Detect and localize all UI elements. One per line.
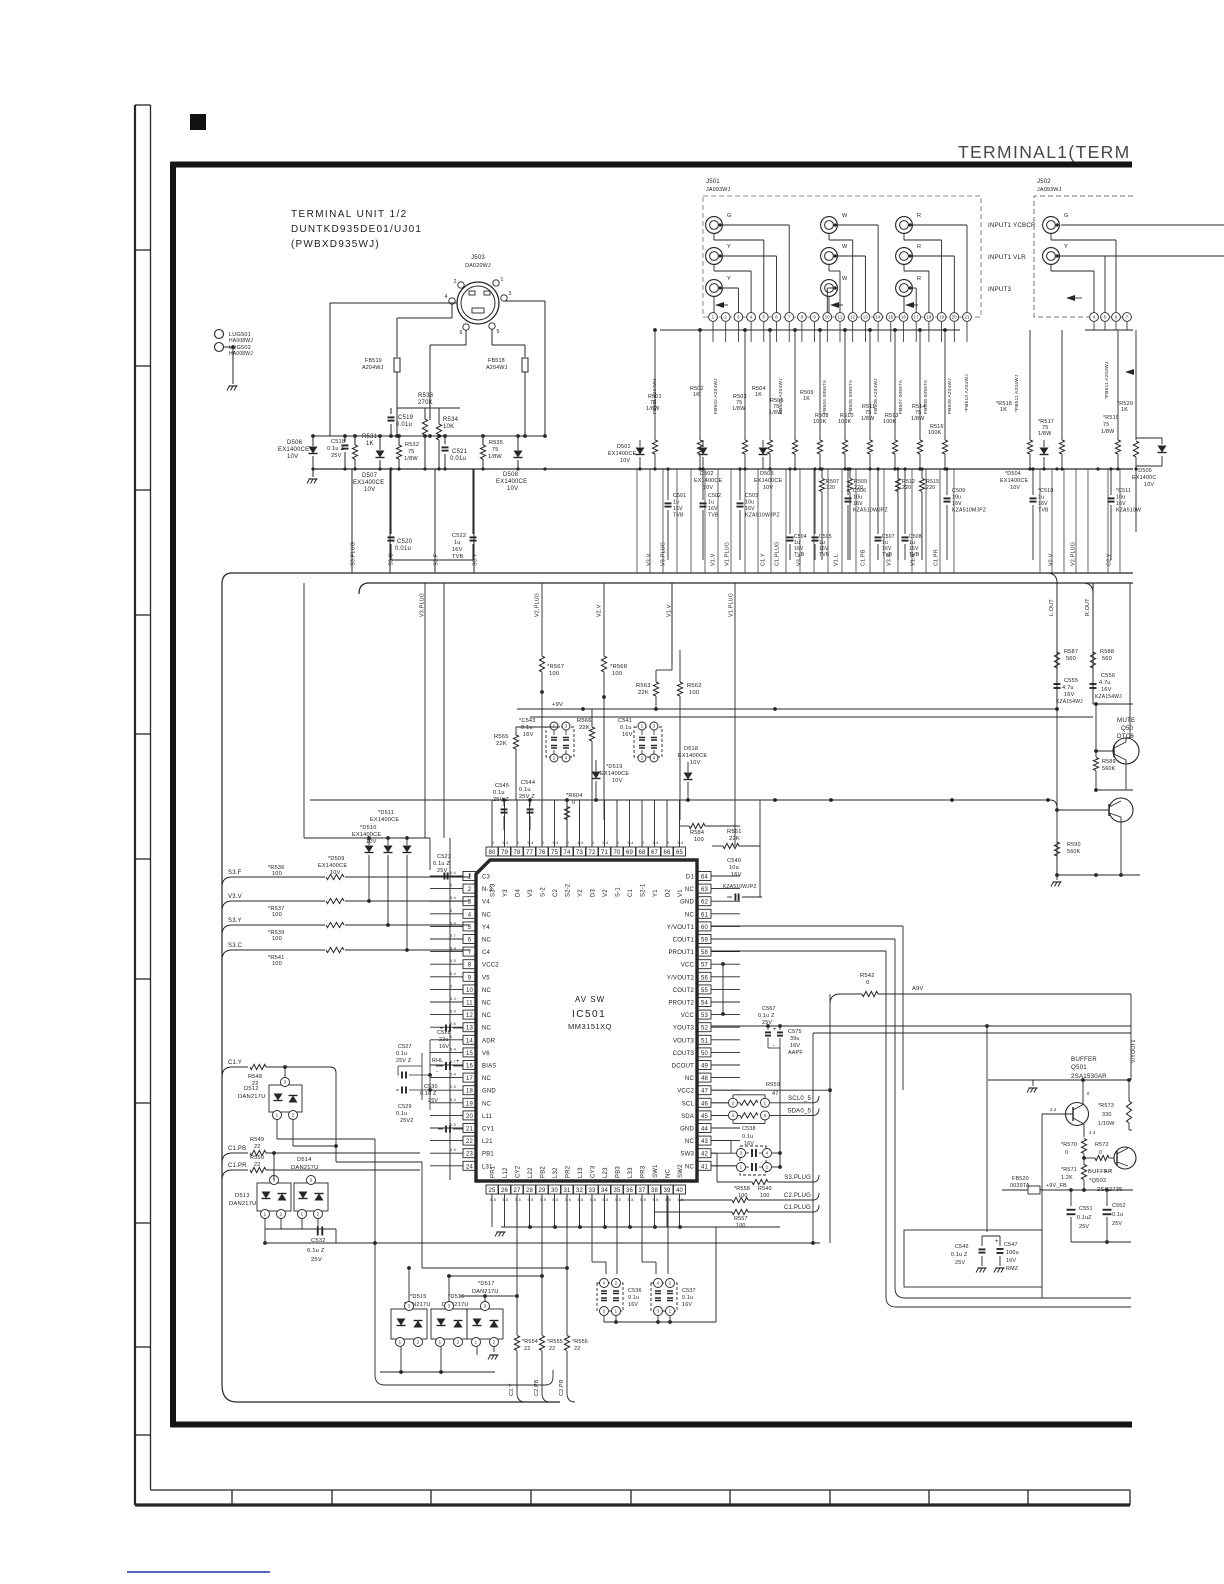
- svg-text:KZA510WJPZ: KZA510WJPZ: [723, 884, 757, 890]
- svg-text:1: 1: [439, 1340, 442, 1345]
- svg-text:*C511: *C511: [1116, 488, 1131, 494]
- svg-text:R: R: [917, 276, 921, 282]
- svg-text:560K: 560K: [1102, 766, 1116, 772]
- svg-text:10V: 10V: [507, 486, 518, 492]
- svg-text:5.4: 5.4: [450, 997, 456, 1001]
- svg-text:5.4: 5.4: [603, 841, 609, 845]
- svg-text:3: 3: [764, 1113, 767, 1118]
- svg-text:1u: 1u: [673, 500, 679, 506]
- svg-text:FB518: FB518: [488, 358, 505, 364]
- svg-text:PB1: PB1: [482, 1152, 494, 1158]
- svg-text:0039TA: 0039TA: [1010, 1183, 1030, 1189]
- svg-text:19: 19: [466, 1101, 474, 1107]
- svg-text:0.1uZ: 0.1uZ: [1077, 1215, 1092, 1221]
- svg-text:A204WJ: A204WJ: [362, 365, 384, 371]
- svg-text:*R558: *R558: [734, 1186, 750, 1192]
- svg-text:80: 80: [488, 850, 496, 856]
- svg-text:10: 10: [466, 988, 474, 994]
- svg-text:VCC: VCC: [681, 963, 695, 969]
- svg-text:0.01u: 0.01u: [396, 422, 412, 428]
- svg-text:3: 3: [408, 1304, 411, 1309]
- svg-text:16V: 16V: [439, 1044, 449, 1050]
- svg-text:C520: C520: [397, 539, 413, 545]
- svg-text:63: 63: [701, 887, 709, 893]
- svg-text:19: 19: [939, 315, 945, 320]
- svg-text:10V: 10V: [1144, 482, 1154, 488]
- svg-text:560: 560: [1102, 656, 1112, 662]
- svg-text:16V: 16V: [952, 501, 962, 507]
- svg-text:0: 0: [592, 841, 594, 845]
- svg-text:V5: V5: [482, 975, 490, 981]
- svg-text:C502: C502: [708, 493, 721, 499]
- svg-text:R588: R588: [1100, 649, 1114, 655]
- svg-text:D518: D518: [684, 746, 698, 752]
- svg-text:Y: Y: [727, 244, 731, 250]
- svg-text:5.4: 5.4: [450, 921, 456, 925]
- svg-text:*D515: *D515: [410, 1294, 427, 1300]
- svg-text:21: 21: [964, 315, 970, 320]
- svg-text:0.1u: 0.1u: [1112, 1212, 1123, 1218]
- svg-text:5.7: 5.7: [450, 934, 456, 938]
- svg-text:+9V_FB: +9V_FB: [1046, 1183, 1067, 1189]
- svg-text:28: 28: [526, 1188, 534, 1194]
- svg-text:L13: L13: [578, 1167, 584, 1178]
- svg-text:2: 2: [493, 1340, 496, 1345]
- svg-text:DAN217U: DAN217U: [229, 1201, 257, 1207]
- svg-text:J503: J503: [471, 255, 485, 261]
- svg-text:S3.C: S3.C: [389, 553, 395, 566]
- svg-text:R562: R562: [687, 683, 702, 689]
- svg-text:25V: 25V: [437, 868, 448, 874]
- svg-text:FB504 0055TA: FB504 0055TA: [822, 379, 828, 414]
- svg-text:C1.Y: C1.Y: [761, 553, 767, 566]
- svg-text:C2.PR: C2.PR: [559, 1379, 565, 1396]
- svg-text:11: 11: [466, 1001, 473, 1007]
- svg-text:48: 48: [701, 1076, 709, 1082]
- svg-text:1K: 1K: [366, 441, 374, 447]
- svg-text:0: 0: [517, 841, 519, 845]
- svg-text:C519: C519: [398, 415, 414, 421]
- svg-text:2: 2: [732, 1100, 735, 1105]
- svg-text:V3.V: V3.V: [228, 894, 242, 900]
- svg-text:SW2: SW2: [678, 1164, 684, 1178]
- svg-text:R550: R550: [250, 1155, 264, 1161]
- svg-text:DAN217U: DAN217U: [291, 1165, 319, 1171]
- svg-text:0.01u: 0.01u: [450, 456, 466, 462]
- svg-text:4.7u: 4.7u: [1062, 685, 1074, 691]
- svg-text:EX1400CE: EX1400CE: [496, 479, 527, 485]
- svg-text:D502: D502: [700, 471, 714, 477]
- svg-text:1: 1: [301, 1212, 304, 1217]
- svg-text:0.1u: 0.1u: [493, 790, 505, 796]
- svg-text:ADR: ADR: [482, 1038, 496, 1044]
- svg-text:PR3: PR3: [641, 1165, 647, 1178]
- svg-text:5.5: 5.5: [615, 1198, 621, 1202]
- svg-text:34: 34: [601, 1188, 609, 1194]
- svg-text:13: 13: [466, 1026, 474, 1032]
- svg-text:C1: C1: [628, 888, 634, 897]
- svg-text:22K: 22K: [496, 741, 507, 747]
- svg-text:C1.PB: C1.PB: [861, 549, 867, 566]
- svg-text:1/8W: 1/8W: [646, 406, 660, 412]
- svg-text:V1: V1: [678, 889, 684, 897]
- svg-text:10V: 10V: [690, 760, 701, 766]
- svg-text:1: 1: [399, 1340, 402, 1345]
- svg-text:16V: 16V: [523, 732, 534, 738]
- svg-text:4: 4: [603, 1281, 606, 1286]
- svg-text:V1.PLUG: V1.PLUG: [729, 593, 735, 617]
- svg-text:79: 79: [501, 850, 509, 856]
- svg-text:R: R: [917, 213, 921, 219]
- svg-text:100: 100: [689, 690, 699, 696]
- svg-text:10V: 10V: [1010, 485, 1020, 491]
- svg-text:0.1u Z: 0.1u Z: [433, 861, 450, 867]
- svg-text:C567: C567: [762, 1006, 776, 1012]
- svg-text:1/8W: 1/8W: [1038, 431, 1052, 437]
- svg-text:1K: 1K: [1121, 407, 1128, 413]
- svg-text:JA093WJ: JA093WJ: [1037, 187, 1062, 193]
- svg-text:+: +: [456, 1059, 460, 1065]
- svg-text:14: 14: [466, 1038, 474, 1044]
- svg-text:16V: 16V: [1116, 501, 1126, 507]
- svg-text:C1.PLUG: C1.PLUG: [775, 542, 781, 566]
- svg-text:0: 0: [642, 841, 644, 845]
- svg-text:W: W: [842, 276, 848, 282]
- svg-text:S3.Y: S3.Y: [473, 553, 479, 566]
- svg-text:S3.F: S3.F: [434, 553, 440, 566]
- svg-text:D508: D508: [503, 472, 519, 478]
- svg-text:51: 51: [701, 1038, 709, 1044]
- svg-text:4: 4: [657, 1281, 660, 1286]
- svg-text:C536: C536: [628, 1288, 642, 1294]
- svg-text:D513: D513: [235, 1193, 250, 1199]
- svg-text:S3.C: S3.C: [228, 943, 243, 949]
- svg-text:1: 1: [764, 1100, 767, 1105]
- svg-text:52: 52: [701, 1026, 709, 1032]
- svg-text:22K: 22K: [579, 725, 590, 731]
- svg-text:69: 69: [626, 850, 634, 856]
- svg-text:R533: R533: [418, 393, 434, 399]
- svg-text:GND: GND: [482, 1089, 496, 1095]
- svg-text:*D510: *D510: [360, 825, 377, 831]
- svg-text:10u: 10u: [853, 495, 862, 501]
- svg-text:43: 43: [701, 1139, 709, 1145]
- svg-text:25: 25: [488, 1188, 496, 1194]
- svg-text:2: 2: [292, 1113, 295, 1118]
- svg-text:74: 74: [563, 850, 571, 856]
- svg-text:*D504: *D504: [1005, 471, 1021, 477]
- svg-text:TERMINAL1(TERM: TERMINAL1(TERM: [958, 142, 1131, 162]
- svg-text:0.1u: 0.1u: [521, 725, 533, 731]
- svg-text:5.5: 5.5: [603, 1198, 609, 1202]
- svg-text:2: 2: [615, 1281, 618, 1286]
- svg-text:C501: C501: [673, 493, 686, 499]
- svg-text:V2: V2: [603, 889, 609, 897]
- svg-text:23: 23: [466, 1152, 474, 1158]
- svg-text:MM3151XQ: MM3151XQ: [568, 1022, 612, 1031]
- svg-text:3: 3: [448, 1304, 451, 1309]
- svg-text:NC: NC: [482, 938, 492, 944]
- svg-text:1/8W: 1/8W: [404, 456, 418, 462]
- svg-text:D507: D507: [362, 473, 378, 479]
- svg-text:32: 32: [576, 1188, 584, 1194]
- svg-text:1K: 1K: [803, 396, 810, 402]
- svg-text:R563: R563: [636, 683, 651, 689]
- svg-text:V2.PLUG: V2.PLUG: [535, 593, 541, 617]
- svg-text:Q501: Q501: [1071, 1064, 1087, 1071]
- svg-text:FB505 0055TA: FB505 0055TA: [848, 379, 854, 414]
- svg-text:1/8W: 1/8W: [861, 416, 875, 422]
- svg-text:NC: NC: [685, 1164, 695, 1170]
- svg-text:*R604: *R604: [566, 793, 583, 799]
- svg-text:R572: R572: [1095, 1142, 1109, 1148]
- svg-text:*C543: *C543: [519, 718, 536, 724]
- svg-text:*R519: *R519: [1103, 415, 1119, 421]
- svg-text:3: 3: [468, 900, 472, 906]
- svg-text:5.4: 5.4: [678, 841, 684, 845]
- svg-text:PR2: PR2: [566, 1165, 572, 1178]
- svg-text:1/8W: 1/8W: [488, 454, 502, 460]
- svg-text:FB519: FB519: [365, 358, 382, 364]
- svg-text:Q50: Q50: [1121, 725, 1134, 732]
- svg-text:*D511: *D511: [378, 810, 394, 816]
- svg-text:100: 100: [736, 1223, 746, 1229]
- svg-text:560: 560: [1066, 656, 1076, 662]
- svg-text:22: 22: [254, 1144, 261, 1150]
- svg-text:DAN217U: DAN217U: [238, 1094, 266, 1100]
- svg-text:1: 1: [264, 1212, 267, 1217]
- svg-text:9: 9: [468, 975, 472, 981]
- svg-text:S3.F: S3.F: [228, 870, 242, 876]
- svg-text:57: 57: [701, 963, 709, 969]
- svg-text:66: 66: [663, 850, 671, 856]
- svg-text:C555: C555: [1064, 678, 1078, 684]
- svg-text:5.5: 5.5: [515, 1198, 521, 1202]
- svg-text:*FB511 A204WJ: *FB511 A204WJ: [1014, 374, 1020, 412]
- svg-text:0: 0: [667, 841, 669, 845]
- svg-text:6: 6: [459, 330, 462, 336]
- svg-text:+9V: +9V: [552, 702, 563, 708]
- svg-text:29: 29: [538, 1188, 546, 1194]
- svg-text:D4: D4: [516, 888, 522, 897]
- svg-text:TVB: TVB: [673, 513, 684, 519]
- svg-text:1K: 1K: [755, 392, 762, 398]
- svg-text:NC: NC: [685, 912, 695, 918]
- svg-text:C1.PLUG: C1.PLUG: [784, 1205, 811, 1211]
- svg-text:5.4: 5.4: [653, 841, 659, 845]
- svg-text:0: 0: [617, 841, 619, 845]
- svg-text:Y3: Y3: [503, 889, 509, 897]
- svg-text:1K: 1K: [1000, 407, 1007, 413]
- svg-text:C503: C503: [745, 493, 758, 499]
- svg-text:36: 36: [626, 1188, 634, 1194]
- svg-text:V3.L: V3.L: [797, 554, 803, 566]
- svg-text:75: 75: [1103, 422, 1109, 428]
- svg-text:44: 44: [701, 1127, 709, 1133]
- svg-text:R561: R561: [727, 829, 742, 835]
- svg-text:5.4: 5.4: [628, 841, 634, 845]
- svg-text:KZA510WJPZ: KZA510WJPZ: [853, 508, 888, 514]
- svg-text:4: 4: [766, 1151, 769, 1156]
- svg-text:5.4: 5.4: [450, 1073, 456, 1077]
- svg-text:D2: D2: [666, 888, 672, 897]
- svg-text:CY3: CY3: [591, 1165, 597, 1178]
- svg-text:41: 41: [701, 1164, 709, 1170]
- svg-text:1: 1: [276, 1113, 279, 1118]
- svg-text:V3.V: V3.V: [647, 553, 653, 566]
- svg-text:D506: D506: [287, 440, 303, 446]
- svg-text:V2.V: V2.V: [1049, 553, 1055, 566]
- svg-text:*R570: *R570: [1061, 1142, 1077, 1148]
- svg-text:EX1400C: EX1400C: [1132, 475, 1156, 481]
- svg-text:C541: C541: [618, 718, 632, 724]
- svg-text:NC: NC: [685, 887, 695, 893]
- svg-text:10V: 10V: [330, 870, 341, 876]
- svg-text:C538: C538: [742, 1126, 756, 1132]
- svg-text:S-2: S-2: [541, 887, 547, 897]
- svg-text:15: 15: [888, 315, 894, 320]
- svg-text:V3.R: V3.R: [887, 553, 893, 566]
- svg-text:R535: R535: [489, 440, 503, 446]
- svg-text:PB2: PB2: [541, 1166, 547, 1178]
- svg-text:D514: D514: [297, 1157, 312, 1163]
- svg-text:C522: C522: [452, 533, 466, 539]
- svg-text:16V: 16V: [1038, 501, 1048, 507]
- svg-text:25V Z: 25V Z: [519, 794, 535, 800]
- svg-text:39u: 39u: [790, 1036, 800, 1042]
- svg-text:C1.PR: C1.PR: [228, 1163, 247, 1169]
- svg-text:EX1400CE: EX1400CE: [1000, 478, 1028, 484]
- svg-text:2: 2: [317, 1212, 320, 1217]
- svg-text:53: 53: [701, 1013, 709, 1019]
- svg-text:*R571: *R571: [1061, 1167, 1077, 1173]
- svg-text:V2.PLUG: V2.PLUG: [1071, 542, 1077, 566]
- svg-text:33: 33: [588, 1188, 596, 1194]
- svg-text:18: 18: [926, 315, 932, 320]
- svg-text:47: 47: [772, 1091, 779, 1097]
- svg-text:FB502 A204WJ: FB502 A204WJ: [713, 378, 719, 414]
- svg-text:4: 4: [732, 1113, 735, 1118]
- svg-text:A204WJ: A204WJ: [486, 365, 508, 371]
- svg-text:W: W: [842, 244, 848, 250]
- svg-text:GND: GND: [680, 1127, 694, 1133]
- svg-text:R534: R534: [443, 417, 459, 423]
- svg-text:VCC2: VCC2: [482, 963, 499, 969]
- svg-text:C4: C4: [482, 950, 491, 956]
- svg-text:Y/VOUT2: Y/VOUT2: [667, 975, 695, 981]
- svg-text:INPUT1 YCBCR: INPUT1 YCBCR: [988, 222, 1036, 229]
- svg-text:V1.L: V1.L: [834, 554, 840, 566]
- svg-text:20: 20: [466, 1114, 474, 1120]
- svg-text:V6: V6: [482, 1051, 490, 1057]
- svg-text:L21: L21: [482, 1139, 493, 1145]
- svg-text:10u: 10u: [729, 865, 739, 871]
- svg-text:22K: 22K: [729, 836, 740, 842]
- svg-text:*R556: *R556: [572, 1339, 588, 1345]
- svg-text:MUTE: MUTE: [1117, 717, 1135, 724]
- svg-text:1K: 1K: [693, 392, 700, 398]
- svg-text:KZA154WJ: KZA154WJ: [1056, 699, 1083, 705]
- svg-text:45: 45: [701, 1114, 709, 1120]
- svg-text:*Q502: *Q502: [1089, 1178, 1106, 1184]
- svg-text:27: 27: [513, 1188, 521, 1194]
- svg-text:5.5: 5.5: [628, 1198, 634, 1202]
- svg-text:SDA: SDA: [681, 1114, 694, 1120]
- svg-text:RMZ: RMZ: [1006, 1266, 1019, 1272]
- svg-text:INPUT3: INPUT3: [988, 286, 1012, 293]
- svg-text:1u: 1u: [454, 540, 461, 546]
- svg-text:PB3: PB3: [616, 1166, 622, 1178]
- svg-text:*R568: *R568: [610, 664, 627, 670]
- svg-text:21: 21: [466, 1127, 474, 1133]
- svg-text:C2: C2: [553, 888, 559, 897]
- svg-text:220: 220: [854, 485, 863, 491]
- svg-text:(PWBXD935WJ): (PWBXD935WJ): [291, 239, 380, 250]
- svg-text:5.4: 5.4: [553, 841, 559, 845]
- svg-text:1/8W: 1/8W: [769, 410, 783, 416]
- svg-text:35: 35: [613, 1188, 621, 1194]
- svg-text:220: 220: [826, 485, 835, 491]
- svg-text:C523: C523: [437, 854, 451, 860]
- svg-text:S2-1: S2-1: [641, 883, 647, 897]
- svg-text:5.4: 5.4: [450, 896, 456, 900]
- svg-text:10V: 10V: [366, 839, 377, 845]
- svg-text:L.OUT: L.OUT: [1049, 599, 1055, 616]
- svg-text:42: 42: [701, 1152, 709, 1158]
- svg-text:KZA510MJPZ: KZA510MJPZ: [952, 508, 986, 514]
- svg-text:Y4: Y4: [482, 925, 490, 931]
- svg-text:0.01u: 0.01u: [395, 546, 411, 552]
- svg-text:V1.R: V1.R: [911, 553, 917, 566]
- svg-text:11: 11: [838, 315, 843, 320]
- svg-text:68: 68: [638, 850, 646, 856]
- svg-text:10u: 10u: [745, 500, 754, 506]
- svg-text:FB520: FB520: [1012, 1176, 1029, 1182]
- svg-text:C532: C532: [311, 1238, 326, 1244]
- svg-text:V3: V3: [528, 889, 534, 897]
- svg-text:+: +: [773, 1027, 777, 1033]
- svg-text:BUFFER: BUFFER: [1088, 1169, 1112, 1175]
- svg-text:SCL: SCL: [682, 1101, 695, 1107]
- svg-text:C556: C556: [1101, 673, 1115, 679]
- svg-text:0.1u Z: 0.1u Z: [951, 1252, 968, 1258]
- svg-text:FB509 A204WJ: FB509 A204WJ: [947, 378, 953, 414]
- svg-text:2: 2: [453, 279, 456, 285]
- svg-text:10V: 10V: [287, 454, 298, 460]
- svg-text:RHL: RHL: [432, 1058, 443, 1064]
- svg-text:TVB: TVB: [452, 554, 464, 560]
- svg-text:1/10W: 1/10W: [1098, 1121, 1115, 1127]
- svg-text:COUT2: COUT2: [673, 988, 695, 994]
- svg-text:100K: 100K: [928, 430, 942, 436]
- svg-text:NC: NC: [685, 1076, 695, 1082]
- svg-text:5.4: 5.4: [503, 841, 509, 845]
- svg-text:C518: C518: [331, 439, 345, 445]
- svg-text:12: 12: [466, 1013, 474, 1019]
- svg-text:25V: 25V: [955, 1260, 965, 1266]
- svg-text:C2.Y: C2.Y: [509, 1383, 515, 1396]
- svg-text:3: 3: [740, 1151, 743, 1156]
- svg-text:60: 60: [701, 925, 709, 931]
- svg-text:71: 71: [601, 850, 609, 856]
- svg-text:G: G: [1064, 213, 1069, 219]
- svg-text:50: 50: [701, 1051, 709, 1057]
- svg-text:100u: 100u: [1006, 1250, 1019, 1256]
- svg-text:1u: 1u: [1038, 495, 1044, 501]
- svg-text:16V: 16V: [853, 501, 863, 507]
- svg-text:16V: 16V: [673, 506, 683, 512]
- svg-text:16: 16: [901, 315, 907, 320]
